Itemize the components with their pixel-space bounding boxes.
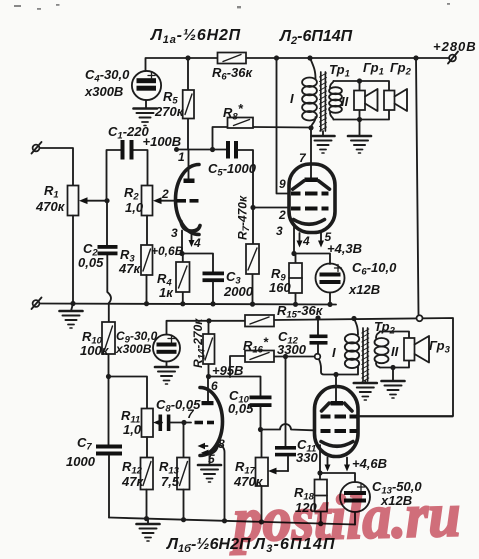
svg-text:II: II — [341, 94, 349, 109]
resistor R10 100k — [108, 354, 110, 377]
pentode L3 anode — [331, 401, 344, 406]
triode L1b grid pin7 — [195, 421, 204, 425]
pentode L2 suppressor — [293, 181, 330, 189]
triode L1b envelope arc — [200, 388, 223, 456]
triode L1b heater arrows — [204, 446, 211, 453]
capacitor C11 330 — [285, 357, 287, 447]
ground at Tr2 secondary — [390, 365, 395, 370]
svg-text:I: I — [332, 345, 336, 360]
node junction R5 top — [185, 55, 190, 60]
svg-text:1,0: 1,0 — [125, 200, 144, 215]
capacitor C1 220 — [107, 150, 148, 201]
svg-text:х300В: х300В — [115, 342, 152, 356]
resistor R5 270k — [187, 58, 189, 150]
svg-text:х12В: х12В — [348, 282, 380, 297]
wire screen grid pin9 feed — [277, 58, 290, 194]
capacitor C5 1000 coupling — [226, 141, 230, 159]
pentode L3 screen grid — [321, 415, 331, 419]
svg-text:2: 2 — [278, 208, 286, 222]
svg-text:C1-220: C1-220 — [108, 124, 149, 142]
svg-text:+280В: +280В — [433, 39, 477, 54]
node junction C11 tap — [283, 354, 288, 359]
wire top supply rail +280V — [146, 58, 453, 71]
svg-text:+4,3В: +4,3В — [327, 241, 362, 256]
terminal input top — [33, 145, 40, 152]
capacitor C12 3300 — [317, 318, 319, 335]
terminal +280V — [449, 55, 456, 62]
svg-text:C5-1000: C5-1000 — [208, 161, 257, 179]
svg-text:470к: 470к — [35, 199, 66, 214]
wire R10 down to C7 — [108, 377, 110, 445]
pentode L2 envelope — [289, 164, 335, 233]
svg-text:4: 4 — [302, 234, 310, 248]
svg-text:I: I — [290, 91, 294, 106]
resistor R8* feedback — [213, 127, 312, 150]
svg-text:2000: 2000 — [223, 284, 254, 299]
resistor R12 47k — [141, 458, 154, 490]
speaker Gr3 — [404, 338, 415, 361]
svg-text:160: 160 — [269, 280, 291, 295]
capacitor C2 0.05 — [107, 201, 111, 322]
ground bus (input common) — [40, 304, 337, 305]
node junction right feed — [413, 55, 418, 60]
capacitor C9 electrolytic 30.0 — [153, 335, 180, 362]
open circle node at C12 — [315, 354, 321, 360]
pentode L3 suppressor — [322, 403, 353, 411]
resistor R7 470k grid leak — [252, 208, 255, 305]
ground under C4 — [134, 109, 157, 126]
svg-text:3300: 3300 — [277, 342, 307, 357]
triode L1b cathode — [205, 444, 218, 454]
wire Tr1 secondary loop — [334, 81, 390, 120]
svg-text:9: 9 — [279, 177, 286, 191]
svg-text:1к: 1к — [159, 285, 174, 300]
node cathode junction — [179, 251, 184, 256]
node L3 cathode junction — [317, 470, 322, 475]
ground under L1b — [209, 456, 211, 465]
ground on bottom bus — [147, 519, 149, 524]
pentode L3 control grid — [321, 429, 331, 433]
wire input to R1 — [40, 148, 74, 186]
svg-text:100к: 100к — [80, 343, 110, 358]
resistor R9 160 — [295, 254, 297, 305]
capacitor C3 2000 cathode bypass — [203, 272, 225, 276]
capacitor C4 electrolytic — [132, 71, 161, 100]
capacitor C8 0.05 — [159, 415, 163, 432]
wire grid node L3 with hop — [258, 427, 263, 432]
svg-text:Л2-6П14П: Л2-6П14П — [279, 28, 353, 47]
wire anode node L3 — [319, 359, 358, 374]
transformer Tr2 core — [363, 328, 368, 381]
svg-text:1: 1 — [178, 150, 185, 164]
wire +280 feed down — [416, 58, 419, 315]
triode L1a envelope arc — [176, 165, 200, 235]
potentiometer R17 470k — [261, 430, 263, 458]
wire L1b anode node — [109, 377, 261, 409]
triode L1a anode — [184, 179, 195, 184]
svg-text:0,05: 0,05 — [228, 401, 254, 416]
pentode L3 heater arrows — [328, 458, 348, 468]
resistor R4 1k cathode — [182, 254, 184, 305]
resistor R13 7.5 — [183, 423, 185, 458]
triode L1a grid — [177, 199, 187, 203]
ground under Gr1 — [359, 120, 361, 137]
svg-text:1000: 1000 — [66, 454, 96, 469]
node junctions on ground bus — [70, 301, 75, 306]
pentode L3 envelope — [315, 387, 359, 457]
svg-text:47к: 47к — [121, 474, 144, 489]
terminal input bottom — [33, 300, 40, 307]
pentode L2 anode pin7 — [310, 128, 312, 178]
wire B+ rail bottom channel — [167, 318, 454, 416]
potentiometer R11 1.0 — [142, 409, 154, 438]
node junction Tr1 primary top — [307, 55, 312, 60]
svg-text:C4-30,0: C4-30,0 — [85, 67, 130, 85]
svg-text:6: 6 — [211, 379, 218, 393]
svg-text:C6-10,0: C6-10,0 — [352, 260, 397, 278]
ground at R1 bottom — [71, 304, 73, 312]
transformer Tr2 secondary II — [375, 338, 389, 363]
wire pin8 to bus — [218, 444, 225, 521]
node L2 cathode junction — [291, 251, 296, 256]
transformer Tr1 secondary II — [329, 87, 342, 113]
capacitor C10 0.05 coupling — [250, 396, 272, 400]
svg-text:II: II — [391, 344, 399, 359]
resistor R16* feedback — [230, 356, 315, 377]
svg-text:270к: 270к — [154, 104, 185, 119]
speaker Gr1 — [359, 81, 361, 120]
pentode L3 screen wire to rail — [357, 416, 453, 418]
transformer Tr2 primary I — [354, 319, 358, 335]
node junction R1 wiper / C1 / C2 — [104, 198, 109, 203]
bottom ground bus — [109, 518, 355, 525]
triode L1b anode pin6 — [207, 377, 209, 402]
svg-text:postila.ru: postila.ru — [228, 479, 461, 555]
svg-text:330: 330 — [296, 450, 318, 465]
pentode L2 screen grid pin9 — [291, 192, 301, 196]
svg-text:1,0: 1,0 — [123, 422, 142, 437]
svg-text:R6-36к: R6-36к — [212, 65, 253, 83]
pentode L2 heater arrows pins 4,5 — [300, 233, 322, 243]
wire Tr2 secondary loop — [380, 332, 409, 368]
triode L1a cathode — [181, 222, 200, 232]
capacitor C7 1000 — [96, 445, 122, 449]
svg-text:7,5: 7,5 — [161, 474, 180, 489]
potentiometer R1 470k — [68, 186, 79, 216]
potentiometer R2 1.0 — [142, 186, 153, 216]
svg-text:3: 3 — [171, 226, 178, 240]
svg-text:C8-0,05: C8-0,05 — [156, 397, 201, 415]
svg-text:0,05: 0,05 — [78, 255, 104, 270]
speaker Gr2 — [384, 91, 395, 111]
transformer Tr1 primary I — [310, 58, 316, 79]
resistor R18 120 — [319, 473, 322, 524]
node junction screen feed — [274, 55, 279, 60]
svg-text:х300В: х300В — [84, 84, 123, 99]
resistor R6 36k (in rail) — [218, 53, 247, 64]
pentode L2 control grid pin2 — [291, 207, 301, 211]
svg-text:2: 2 — [161, 187, 169, 201]
svg-text:+4,6В: +4,6В — [352, 456, 387, 471]
resistor R3 47k — [141, 245, 153, 275]
resistor R14 270k plate load — [208, 321, 210, 377]
pentode L2 cathode — [294, 220, 325, 225]
capacitor C13 electrolytic 50.0 — [340, 482, 370, 512]
capacitor C6 electrolytic 10.0 — [316, 264, 345, 293]
open circle junction at rail — [417, 315, 423, 321]
triode L1a heater pin4 arrow — [191, 233, 193, 243]
node junction R8/Tr1 primary bottom — [308, 125, 313, 130]
pentode L3 cathode — [321, 442, 353, 447]
resistor R15 36k — [245, 315, 274, 327]
svg-text:47к: 47к — [118, 261, 141, 276]
wire anode node +100V — [177, 149, 227, 151]
svg-text:3: 3 — [276, 224, 283, 238]
transformer Tr1 core — [321, 72, 326, 131]
svg-text:+0,6В: +0,6В — [151, 244, 184, 258]
svg-text:4: 4 — [193, 236, 201, 250]
